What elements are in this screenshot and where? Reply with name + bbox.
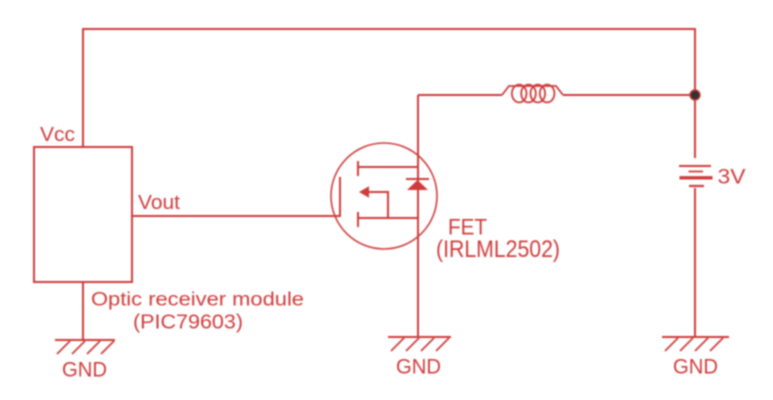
svg-text:(IRLML2502): (IRLML2502)	[436, 236, 560, 263]
inductor L1	[502, 85, 563, 103]
gate bar	[339, 177, 341, 217]
wire diode segment	[417, 167, 419, 218]
wire box bottom to ground	[82, 282, 84, 340]
substrate arrow head	[359, 186, 369, 198]
wire Vout to gate	[132, 215, 340, 217]
svg-text:Optic receiver module: Optic receiver module	[91, 289, 304, 311]
optic receiver module U1	[34, 147, 132, 282]
wire junction to battery	[694, 95, 696, 158]
transistor Q1 FET body	[340, 161, 418, 227]
wire source to ground	[417, 218, 419, 337]
source lead	[358, 217, 418, 219]
node junction dot	[690, 90, 700, 100]
svg-text:Vout: Vout	[138, 192, 180, 214]
ground middle	[388, 337, 451, 351]
channel bottom segment	[357, 212, 359, 227]
wire battery to ground	[694, 188, 696, 337]
transistor Q1 FET circle	[331, 143, 437, 249]
drain lead	[358, 166, 418, 168]
svg-text:3V: 3V	[718, 166, 746, 189]
svg-text:GND: GND	[673, 356, 718, 379]
svg-text:GND: GND	[62, 359, 107, 382]
battery BT1 3V	[679, 166, 713, 186]
ground right	[662, 337, 729, 351]
channel top segment	[357, 161, 359, 176]
wire coil to junction	[563, 94, 695, 96]
ground left	[55, 340, 115, 354]
body diode triangle	[407, 180, 428, 190]
wire drain vertical	[417, 95, 419, 167]
wire right drop (top rail to junction)	[694, 28, 696, 95]
wire Vcc riser (box top to top rail)	[82, 29, 84, 147]
body diode cathode bar	[406, 178, 429, 180]
svg-text:(PIC79603): (PIC79603)	[133, 312, 243, 334]
svg-text:Vcc: Vcc	[40, 124, 75, 146]
substrate arrow tail	[368, 192, 388, 218]
svg-text:GND: GND	[396, 356, 441, 379]
wire drain to coil	[418, 94, 502, 96]
wire top rail	[82, 28, 695, 30]
